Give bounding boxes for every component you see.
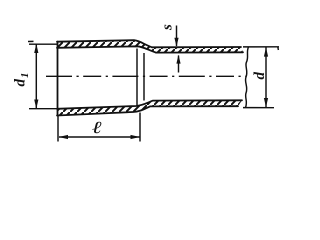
svg-text:1: 1 (19, 73, 31, 79)
svg-text:d: d (252, 72, 268, 80)
svg-text:s: s (160, 24, 176, 31)
svg-text:d: d (13, 79, 29, 87)
svg-text:ℓ: ℓ (92, 119, 102, 137)
